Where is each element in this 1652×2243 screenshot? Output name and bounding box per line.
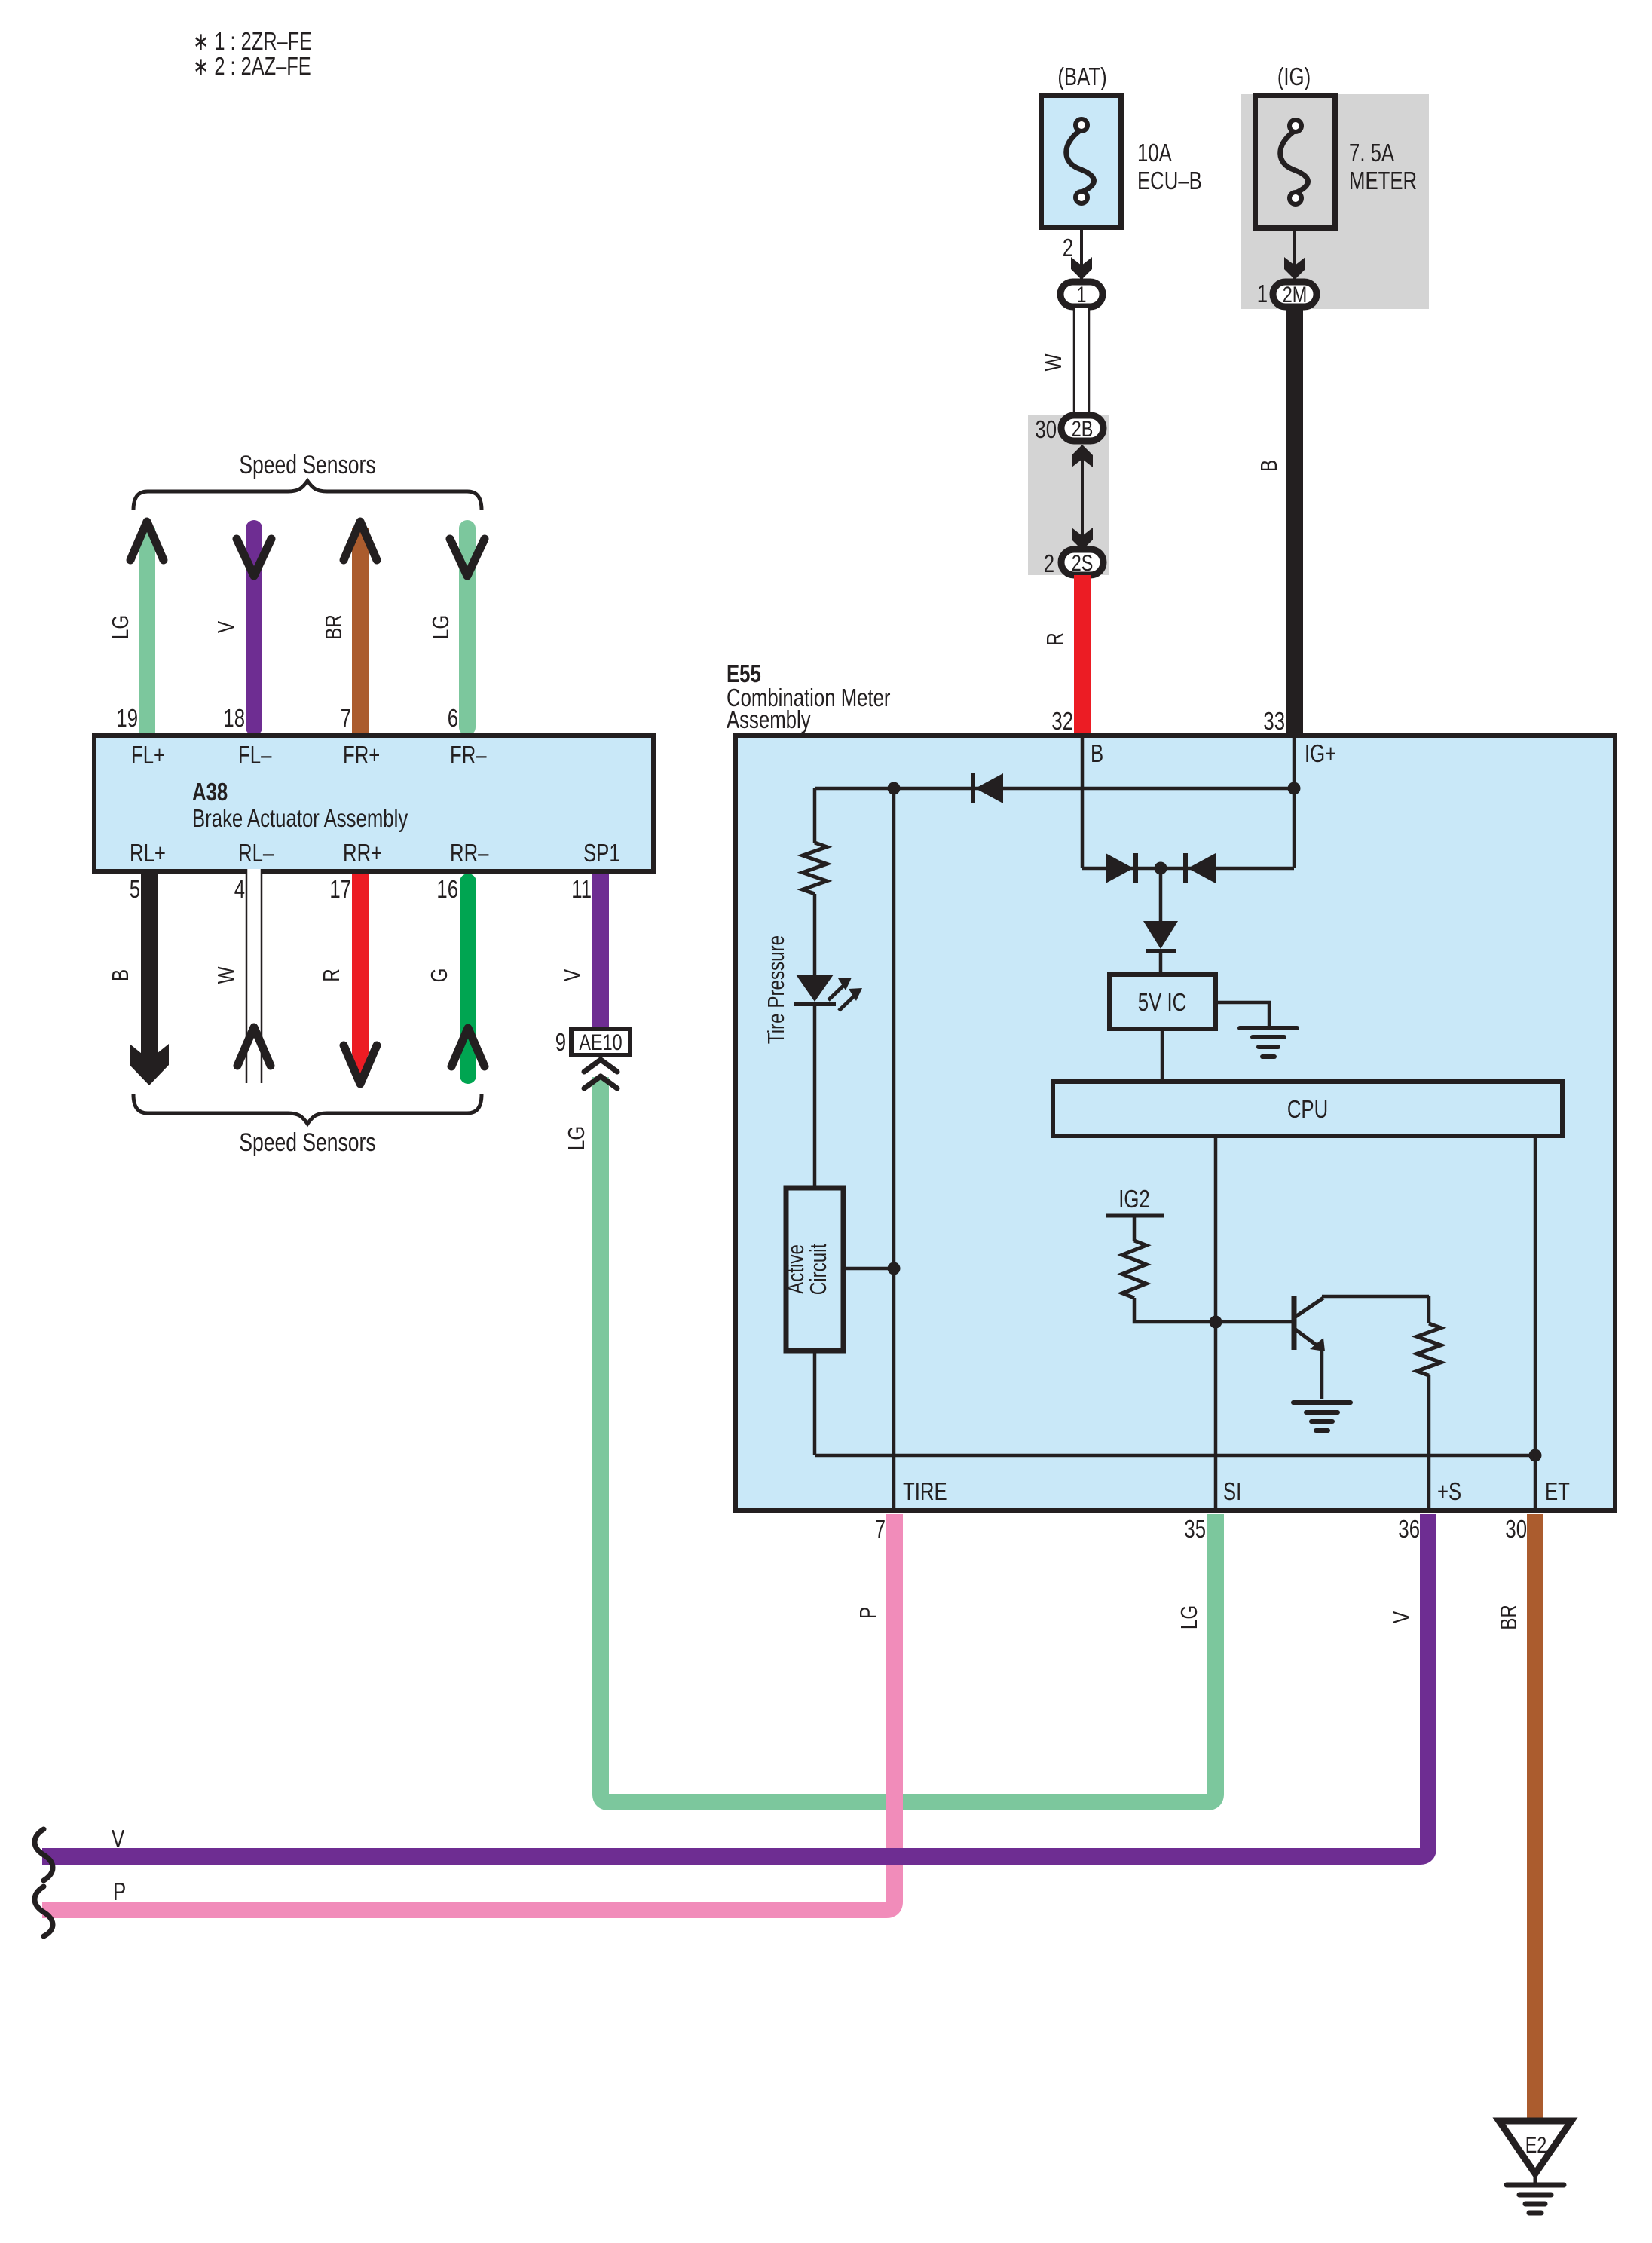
- wire BR to FR+ pin 7: [352, 528, 369, 736]
- wire Active Circuit bottom: [813, 1351, 817, 1455]
- ET vertical line: [1534, 1136, 1537, 1510]
- svg-text:10A: 10A: [1137, 139, 1172, 167]
- svg-text:6: 6: [448, 704, 458, 732]
- break squiggle P: [35, 1887, 53, 1936]
- svg-text:∗ 2 : 2AZ–FE: ∗ 2 : 2AZ–FE: [193, 52, 311, 80]
- shield chevrons below AE10: [584, 1060, 617, 1072]
- svg-text:LG: LG: [427, 615, 454, 639]
- svg-text:1: 1: [1257, 280, 1268, 308]
- break squiggle V: [35, 1829, 53, 1880]
- svg-text:W: W: [213, 966, 239, 984]
- LED tire pressure: [796, 975, 834, 1002]
- svg-text:SI: SI: [1223, 1477, 1241, 1505]
- svg-text:V: V: [1388, 1611, 1415, 1623]
- svg-text:SP1: SP1: [583, 839, 620, 867]
- svg-text:A38: A38: [192, 778, 228, 806]
- wire left branch vertical: [813, 788, 817, 843]
- +S vertical line: [1427, 1375, 1431, 1510]
- pin 36 +S wire V (violet): [42, 1514, 1428, 1856]
- svg-text:FL+: FL+: [131, 741, 165, 769]
- Active Circuit box: [786, 1188, 843, 1351]
- diode D1 (left pointing): [975, 773, 1003, 803]
- diode D4 (down pointing): [1143, 921, 1178, 949]
- svg-text:33: 33: [1263, 707, 1285, 735]
- svg-text:Tire Pressure: Tire Pressure: [763, 935, 789, 1044]
- svg-text:5V IC: 5V IC: [1138, 988, 1186, 1016]
- svg-text:2: 2: [1063, 234, 1073, 262]
- svg-text:E2: E2: [1525, 2133, 1547, 2158]
- wire G from RR- pin 16: [460, 882, 476, 1076]
- resistor (+S pull): [1417, 1323, 1441, 1375]
- diode D3 (left pointing): [1188, 853, 1216, 883]
- svg-text:B: B: [107, 969, 133, 981]
- svg-text:METER: METER: [1349, 167, 1417, 194]
- connector oval 1: [1060, 282, 1103, 307]
- junction IG+: [1288, 782, 1301, 795]
- svg-text:Brake Actuator Assembly: Brake Actuator Assembly: [192, 804, 408, 832]
- wire LG from AE10 to SI pin 35: [601, 1077, 1216, 1802]
- brace bottom: [133, 1094, 482, 1124]
- svg-text:TIRE: TIRE: [903, 1477, 947, 1505]
- pin 7 TIRE wire P (pink): [42, 1514, 895, 1910]
- wire B from RL+ pin 5: [141, 874, 158, 1066]
- svg-text:V: V: [112, 1825, 124, 1853]
- svg-text:16: 16: [436, 875, 458, 903]
- svg-text:11: 11: [571, 875, 592, 903]
- svg-text:17: 17: [329, 875, 351, 903]
- svg-text:35: 35: [1184, 1515, 1206, 1543]
- junction TIRE top: [888, 782, 901, 795]
- A38 Brake Actuator Assembly box: [94, 736, 653, 871]
- ground (5V IC): [1240, 1026, 1297, 1030]
- connector oval 2S, pin 2: [1061, 549, 1103, 575]
- wire collector rail: [1322, 1295, 1429, 1299]
- svg-text:LG: LG: [107, 615, 133, 639]
- wire from IG fuse: [1293, 231, 1296, 280]
- LED emission arrows: [828, 984, 845, 1000]
- svg-text:30: 30: [1505, 1515, 1527, 1543]
- wire Active Circuit to TIRE line: [843, 1267, 894, 1271]
- svg-text:AE10: AE10: [579, 1030, 622, 1055]
- wire to diode D4: [1159, 868, 1163, 921]
- svg-text:30: 30: [1035, 415, 1057, 443]
- svg-text:FL–: FL–: [238, 741, 272, 769]
- diode D2 (right pointing): [1106, 853, 1133, 883]
- svg-text:V: V: [213, 621, 239, 633]
- svg-text:IG2: IG2: [1118, 1185, 1150, 1213]
- svg-text:7: 7: [875, 1515, 886, 1543]
- svg-text:RR–: RR–: [450, 839, 489, 867]
- wire 5V IC to CPU: [1161, 1029, 1164, 1082]
- svg-text:RR+: RR+: [343, 839, 382, 867]
- brace top: [133, 481, 482, 510]
- svg-text:18: 18: [223, 704, 245, 732]
- wire 5V IC to ground: [1216, 1002, 1269, 1027]
- CPU box: [1053, 1082, 1562, 1136]
- node B internal line: [1081, 738, 1085, 868]
- svg-text:RL–: RL–: [238, 839, 274, 867]
- svg-text:32: 32: [1051, 707, 1073, 735]
- wire R from RR+ pin 17: [352, 874, 369, 1054]
- node IG+ internal line: [1293, 738, 1296, 868]
- svg-text:2: 2: [1044, 549, 1054, 577]
- svg-text:Circuit: Circuit: [805, 1243, 831, 1295]
- svg-text:+S: +S: [1437, 1477, 1461, 1505]
- svg-text:R: R: [318, 968, 344, 982]
- svg-text:1: 1: [1077, 283, 1087, 308]
- wire W (white): [1073, 308, 1090, 414]
- svg-text:36: 36: [1398, 1515, 1420, 1543]
- svg-text:P: P: [855, 1607, 881, 1619]
- svg-text:19: 19: [116, 704, 138, 732]
- svg-text:Speed Sensors: Speed Sensors: [239, 1128, 375, 1157]
- svg-text:B: B: [1256, 460, 1282, 472]
- svg-text:5: 5: [130, 875, 140, 903]
- TIRE vertical line: [892, 788, 896, 1510]
- wire between 2B and 2S: [1081, 452, 1084, 537]
- wire LG to FL+ pin 19: [139, 528, 155, 736]
- connector oval 2B, pin 30: [1061, 415, 1103, 441]
- SI vertical line: [1214, 1136, 1218, 1510]
- gray option background (IG): [1241, 94, 1429, 309]
- wire diode row: [1082, 867, 1294, 871]
- pin 30 ET wire BR (brown): [1527, 1514, 1543, 2122]
- svg-text:BR: BR: [320, 614, 347, 640]
- svg-text:7: 7: [341, 704, 351, 732]
- svg-text:LG: LG: [1176, 1605, 1202, 1629]
- svg-text:P: P: [113, 1877, 126, 1905]
- svg-text:(BAT): (BAT): [1057, 63, 1106, 90]
- svg-text:(IG): (IG): [1277, 63, 1311, 90]
- wire W from RL- pin 4: [247, 869, 261, 1083]
- 5V IC box: [1109, 975, 1216, 1029]
- wire R (red) to E55 pin 32: [1074, 575, 1091, 740]
- resistor IG2: [1122, 1241, 1146, 1298]
- wire V from SP1 pin 11: [592, 874, 609, 1027]
- bottom rail to ET: [815, 1454, 1535, 1458]
- svg-text:2M: 2M: [1283, 283, 1308, 308]
- svg-text:W: W: [1040, 353, 1066, 371]
- wire from BAT fuse, pin 2: [1080, 230, 1083, 280]
- ground (transistor emitter): [1293, 1400, 1351, 1405]
- svg-text:V: V: [559, 969, 586, 981]
- connector AE10, pin 9: [571, 1029, 630, 1055]
- svg-text:Speed Sensors: Speed Sensors: [239, 451, 375, 479]
- svg-text:ET: ET: [1545, 1477, 1570, 1505]
- svg-text:Assembly: Assembly: [727, 705, 811, 733]
- svg-text:R: R: [1042, 632, 1068, 646]
- svg-text:G: G: [426, 968, 452, 983]
- ground E2: [1499, 2121, 1571, 2174]
- svg-text:FR+: FR+: [343, 741, 380, 769]
- svg-text:B: B: [1091, 739, 1103, 767]
- wire B (black) to E55 pin 33: [1286, 307, 1303, 740]
- svg-text:∗ 1 : 2ZR–FE: ∗ 1 : 2ZR–FE: [193, 27, 312, 55]
- wire LG to FR- pin 6: [459, 528, 476, 727]
- wire top horizontal: [815, 787, 1294, 791]
- svg-text:LG: LG: [563, 1126, 589, 1150]
- svg-text:RL+: RL+: [130, 839, 166, 867]
- svg-text:7. 5A: 7. 5A: [1349, 139, 1394, 167]
- connector oval 2M, pin 1: [1273, 282, 1317, 307]
- svg-text:BR: BR: [1495, 1605, 1522, 1630]
- resistor (tire pressure): [803, 843, 827, 894]
- svg-text:2B: 2B: [1072, 417, 1094, 442]
- wire V to FL- pin 18: [246, 528, 262, 727]
- svg-text:IG+: IG+: [1305, 739, 1336, 767]
- svg-text:4: 4: [234, 875, 245, 903]
- svg-text:9: 9: [555, 1028, 566, 1056]
- transistor Q1: [1292, 1296, 1297, 1350]
- svg-text:2S: 2S: [1072, 551, 1094, 576]
- svg-text:CPU: CPU: [1287, 1095, 1328, 1123]
- svg-text:FR–: FR–: [450, 741, 487, 769]
- svg-text:ECU–B: ECU–B: [1137, 167, 1202, 194]
- junction mid diodes: [1155, 862, 1167, 875]
- junction block gray background: [1028, 415, 1109, 575]
